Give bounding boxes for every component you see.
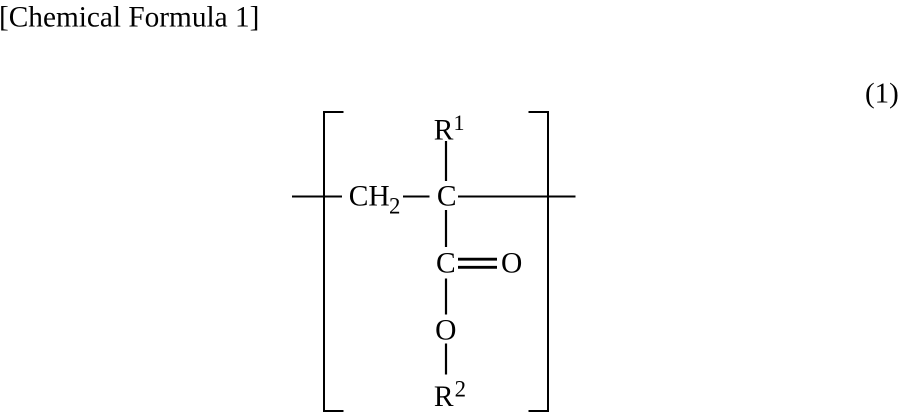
svg-text:O: O [501,248,522,280]
svg-text:O: O [435,314,456,346]
svg-text:[Chemical Formula 1]: [Chemical Formula 1] [0,2,259,34]
svg-text:R: R [434,381,454,413]
svg-text:2: 2 [389,194,400,219]
wire bond ester O to R2 [445,344,447,375]
double bond C=O upper bar [458,258,497,261]
wire bond R1 to C [445,141,447,181]
svg-text:1: 1 [454,110,465,135]
wire bond carbonyl C to ester O [445,279,447,315]
wire bond CH2 to C [403,196,430,198]
svg-text:2: 2 [455,376,466,401]
double bond C=O lower bar [458,266,497,269]
svg-text:CH: CH [349,181,390,213]
wire backbone bond right stub [458,196,576,198]
wire bond C to carbonyl C [445,210,447,247]
wire backbone bond left stub [292,196,342,198]
svg-text:C: C [437,181,457,213]
left bracket [324,112,344,411]
right bracket [529,112,549,411]
svg-text:R: R [434,115,454,147]
svg-text:C: C [436,248,456,280]
svg-text:(1): (1) [865,78,899,110]
